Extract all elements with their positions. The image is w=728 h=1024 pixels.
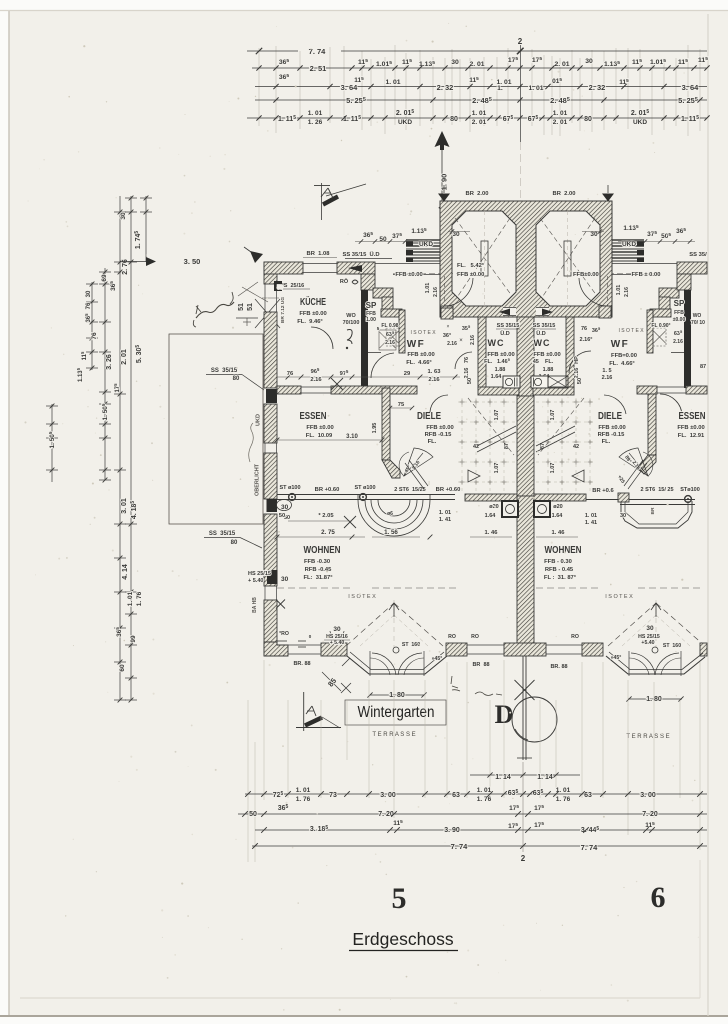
svg-text:2.16: 2.16: [428, 377, 440, 383]
svg-text:2.16: 2.16: [574, 368, 580, 379]
svg-text:30: 30: [590, 231, 598, 238]
svg-text:FFB ±0.00: FFB ±0.00: [306, 425, 333, 431]
porch 30 labels: [448, 229, 604, 238]
svg-text:1. 14: 1. 14: [495, 774, 511, 781]
wc fixtures left: [503, 376, 520, 388]
svg-text:1. 01: 1. 01: [556, 787, 571, 794]
section mark A top: [314, 183, 366, 220]
dim 3.10 essen: [275, 423, 385, 443]
svg-text:WO: WO: [693, 313, 702, 319]
wc east wall right unit: [566, 317, 574, 388]
FFB datum dashed left: [393, 272, 462, 278]
svg-text:I S O T E X: I S O T E X: [605, 594, 633, 600]
party wall axis below plan: [515, 656, 535, 760]
dim line 1.14 1.14: [470, 772, 580, 781]
top wall window BR 1.08: [303, 251, 337, 273]
steel column ST100 right: [586, 487, 700, 505]
svg-text:1.01: 1.01: [616, 285, 622, 296]
level arrow 3.50: [120, 257, 200, 266]
svg-text:2. 75: 2. 75: [321, 529, 335, 536]
wc door arc left: [455, 352, 472, 369]
svg-text:WOHNEN: WOHNEN: [545, 544, 582, 556]
stairwell grid right unit: [536, 398, 594, 492]
svg-text:FL. 1.465: FL. 1.465: [484, 357, 511, 365]
svg-text:I S O T E X: I S O T E X: [618, 328, 644, 334]
wc side dims left: [459, 324, 476, 384]
callout SS 35/15 80 upper: [206, 368, 264, 390]
svg-text:FL. 12.91: FL. 12.91: [678, 433, 705, 439]
svg-text:51: 51: [247, 303, 254, 311]
dimension line 2 (2.51 row): [252, 56, 710, 81]
svg-text:1. 46: 1. 46: [485, 530, 499, 536]
svg-text:1. 80: 1. 80: [389, 692, 405, 699]
entrance steps UKD left unit: [406, 240, 440, 262]
window cross mark left wall kueche: [242, 287, 280, 328]
SP closet walls right unit: [647, 309, 684, 353]
svg-text:30: 30: [585, 58, 593, 65]
room label WOHNEN right: [544, 544, 582, 581]
svg-text:2. 01: 2. 01: [554, 61, 569, 68]
svg-text:BR 88: BR 88: [472, 662, 489, 668]
svg-text:BR 2.00: BR 2.00: [553, 191, 576, 197]
wo 70/100 label left: [343, 313, 360, 349]
svg-text:BR. 88: BR. 88: [550, 664, 567, 670]
svg-text:30: 30: [452, 231, 460, 238]
room label WOHNEN left: [303, 544, 340, 581]
bay window right: [606, 651, 705, 676]
right edge small dims: [602, 364, 706, 381]
svg-text:1. 01: 1. 01: [496, 79, 511, 86]
svg-text:»45°: »45°: [432, 656, 443, 662]
svg-text:50: 50: [279, 513, 285, 519]
bottom wall pier right of party: [582, 643, 603, 656]
svg-text:SP: SP: [366, 301, 377, 310]
bottom extension lines: [248, 660, 700, 862]
svg-text:1. 26: 1. 26: [308, 119, 323, 126]
svg-text:80: 80: [450, 116, 458, 123]
svg-text:63: 63: [452, 792, 460, 799]
svg-text:SS 35/15 Ü.D: SS 35/15 Ü.D: [342, 251, 379, 258]
SP shelf crosses left: [386, 328, 399, 346]
svg-text:30: 30: [646, 625, 654, 632]
top wall east segment right unit: [659, 262, 707, 310]
51 51 rotated labels: [236, 282, 258, 326]
svg-text:WC: WC: [488, 338, 505, 348]
dimension line 3 (3.64 row): [255, 76, 707, 92]
svg-text:1. 63: 1. 63: [428, 369, 442, 375]
dimension line 7.74 top: [247, 47, 707, 56]
BR 2.00 labels: [466, 191, 576, 197]
dim 1.01 2.16 rotated right: [616, 285, 630, 297]
sp room label right: [651, 299, 705, 345]
wc side dims right: [574, 326, 601, 384]
svg-text:FFB ±0.00: FFB ±0.00: [426, 425, 453, 431]
entrance steps UKD right unit: [608, 240, 644, 262]
svg-text:UKD: UKD: [622, 241, 636, 248]
svg-text:FFB: FFB: [674, 310, 684, 316]
diag dim 85 left bay: [322, 658, 351, 693]
svg-text:UKD: UKD: [256, 414, 262, 426]
kueche door arc: [311, 327, 333, 349]
porch block with party wall: [440, 201, 612, 317]
HS label above left bay: [324, 626, 350, 646]
svg-text:2. 32: 2. 32: [437, 83, 454, 92]
svg-text:FL. 9.46°: FL. 9.46°: [297, 319, 323, 325]
svg-text:ø20: ø20: [553, 504, 562, 510]
wintergarten box and label: [345, 700, 446, 725]
label SS 35/15 UD top: [342, 251, 392, 259]
svg-text:RO: RO: [471, 634, 479, 640]
svg-text:1. 01: 1. 01: [296, 787, 311, 794]
steps dims right: [618, 224, 695, 244]
svg-text:1. 5: 1. 5: [602, 368, 611, 374]
top wall threshold lines at entrance: [375, 264, 677, 275]
steel columns ST100 left: [279, 485, 460, 500]
svg-text:SS 35/15: SS 35/15: [211, 368, 238, 374]
RO vent arrow left: [340, 265, 366, 285]
svg-text:FFB ±0.00: FFB ±0.00: [407, 352, 434, 358]
svg-text:1. 46: 1. 46: [552, 530, 566, 536]
steps dims left: [355, 227, 432, 244]
svg-text:1. 01: 1. 01: [585, 513, 597, 519]
room label WF left: [406, 339, 434, 366]
svg-text:80: 80: [233, 376, 240, 382]
svg-text:1. 01: 1. 01: [553, 110, 568, 117]
svg-text:99: 99: [130, 635, 137, 643]
svg-text:2.16: 2.16: [602, 375, 613, 381]
svg-text:76: 76: [287, 371, 294, 377]
svg-text:76: 76: [86, 302, 92, 309]
room label WC right: [533, 338, 561, 380]
svg-text:SS 35/15: SS 35/15: [533, 323, 556, 329]
svg-text:UKD: UKD: [398, 119, 412, 126]
svg-text:69: 69: [101, 274, 108, 282]
svg-text:50: 50: [249, 811, 257, 818]
detail letter D: [495, 700, 514, 729]
svg-text:HS 25/15: HS 25/15: [248, 571, 271, 577]
svg-text:2.16: 2.16: [385, 340, 395, 346]
stair fan right unit: [616, 448, 653, 489]
svg-text:1. 01: 1. 01: [439, 510, 451, 516]
room label DIELE left: [417, 410, 454, 445]
bottom dimension line B: [238, 804, 707, 818]
svg-text:STø100: STø100: [680, 487, 700, 493]
svg-text:BR 7.12 UG: BR 7.12 UG: [280, 297, 286, 323]
roof drain arrow top-left house corner: [244, 247, 263, 263]
bottom dimension line A: [245, 787, 707, 803]
detail circle: [512, 697, 557, 742]
bottom wall party pier: [504, 643, 546, 656]
svg-text:+ 5.40: + 5.40: [330, 640, 345, 646]
stair fan left unit: [399, 448, 433, 489]
crossed shower box right wc: [548, 376, 568, 388]
svg-text:42: 42: [473, 444, 479, 450]
pier below entrance right: [599, 306, 611, 318]
right landing pier: [618, 493, 629, 502]
porch threshold arrows: [499, 309, 553, 316]
svg-text:30: 30: [333, 626, 341, 633]
svg-text:80: 80: [231, 540, 238, 546]
svg-text:1.64: 1.64: [552, 513, 564, 519]
svg-text:WC: WC: [534, 338, 551, 348]
svg-text:FL. 5.42°: FL. 5.42°: [457, 263, 485, 269]
RO marks bottom wall: [279, 631, 579, 647]
svg-text:76: 76: [91, 332, 98, 340]
bay curtain fans left: [370, 642, 424, 675]
svg-text:1. 14: 1. 14: [537, 774, 553, 781]
kueche bottom wall dims: [277, 367, 460, 383]
svg-text:3. 64: 3. 64: [682, 83, 700, 92]
svg-text:Ü.D: Ü.D: [500, 330, 510, 337]
room label ESSEN right: [677, 410, 705, 439]
svg-text:ESSEN: ESSEN: [679, 410, 706, 422]
svg-text:°RO: °RO: [279, 631, 289, 637]
svg-text:3. 00: 3. 00: [640, 792, 656, 799]
svg-text:DIELE: DIELE: [598, 410, 622, 422]
wc fixtures right: [531, 376, 548, 388]
svg-text:4. 14: 4. 14: [122, 564, 129, 580]
svg-text:SS 35/15: SS 35/15: [497, 323, 520, 329]
dim 1.80 left bay: [364, 692, 430, 699]
svg-text:50: 50: [467, 378, 473, 384]
svg-text:RÖ: RÖ: [340, 278, 349, 285]
crossed box right of SP left unit: [379, 330, 396, 350]
svg-text:×: ×: [447, 324, 450, 330]
svg-text:2. 01: 2. 01: [469, 61, 484, 68]
svg-text:BR +0.6: BR +0.6: [592, 488, 614, 494]
porch dashed diagonals right: [540, 211, 597, 306]
svg-text:2. 01: 2. 01: [472, 119, 487, 126]
svg-text:1. 76: 1. 76: [136, 591, 143, 606]
left dimension rotated labels: [48, 212, 143, 672]
roof arrow left porch corner: [438, 185, 450, 202]
north arrow 1.90: [435, 131, 450, 208]
kueche west wall dark right unit: [684, 290, 691, 388]
room label KUECHE: [297, 295, 326, 325]
dim 1.01 2.16 rotated left: [425, 283, 439, 297]
door X mark kueche: [331, 378, 343, 390]
handwritten note right of left bay: [451, 676, 502, 696]
svg-text:SS 35/: SS 35/: [689, 252, 707, 258]
svg-text:7. 20: 7. 20: [642, 811, 658, 818]
svg-text:36°: 36°: [443, 333, 451, 339]
svg-text:FFB ±0.00: FFB ±0.00: [677, 425, 704, 431]
svg-text:FFB ±0.00: FFB ±0.00: [533, 352, 560, 358]
svg-text:SP: SP: [674, 299, 685, 308]
svg-text:1.64: 1.64: [491, 374, 503, 380]
bottom dimension line D: [252, 842, 707, 852]
handwritten scribble top left: [193, 292, 234, 327]
svg-text:1.07: 1.07: [494, 410, 500, 421]
wc door arc right: [569, 351, 591, 373]
svg-text:1. 01: 1. 01: [308, 110, 323, 117]
svg-text:1. 76: 1. 76: [296, 796, 311, 803]
svg-text:2 ST6 15/25: 2 ST6 15/25: [394, 487, 426, 493]
small hatched pier corridor left: [441, 308, 453, 319]
section line 2 top: [517, 37, 523, 142]
svg-text:2.16: 2.16: [470, 335, 476, 345]
paper edge lines: [8, 10, 10, 1017]
bay 45deg labels: [432, 655, 622, 662]
svg-text:42: 42: [573, 444, 579, 450]
svg-text:1.95: 1.95: [372, 423, 378, 434]
svg-text:RO: RO: [448, 634, 456, 640]
svg-text:1. 41: 1. 41: [439, 517, 451, 523]
porch FL labels: [457, 263, 599, 278]
svg-text:1. 76: 1. 76: [556, 796, 571, 803]
svg-text:30: 30: [120, 212, 127, 220]
svg-text:2. 32: 2. 32: [589, 83, 606, 92]
bay roof dashed tent left: [346, 600, 443, 648]
svg-text:ESSEN: ESSEN: [300, 410, 327, 422]
svg-text:BR 1.08: BR 1.08: [307, 251, 331, 257]
svg-text:Ü.D: Ü.D: [536, 330, 546, 337]
svg-text:1. 56: 1. 56: [384, 529, 398, 536]
svg-text:1. 01: 1. 01: [385, 79, 400, 86]
room label WF right: [609, 339, 637, 367]
SP closet walls left unit: [368, 309, 405, 353]
svg-text:1.07: 1.07: [550, 410, 556, 421]
svg-text:3. 26: 3. 26: [106, 354, 113, 370]
svg-text:FFB ±0.00: FFB ±0.00: [395, 272, 422, 278]
wohnen top dims left: [275, 500, 433, 540]
bottom wall left corner: [264, 642, 288, 656]
svg-text:3. 50: 3. 50: [184, 257, 201, 266]
svg-text:WF: WF: [611, 339, 630, 350]
svg-text:30: 30: [281, 576, 289, 583]
svg-text:6: 6: [651, 881, 666, 914]
svg-text:RFB -0.15: RFB -0.15: [598, 432, 626, 438]
svg-text:ø6: ø6: [387, 511, 393, 517]
svg-text:1. 01: 1. 01: [477, 787, 492, 794]
essen diele wall left unit: [382, 388, 400, 478]
right essen door arc: [660, 394, 682, 416]
svg-text:±0.00: ±0.00: [673, 317, 686, 323]
svg-text:7. 74: 7. 74: [451, 842, 469, 851]
svg-text:50: 50: [277, 285, 283, 291]
svg-text:UKD: UKD: [419, 241, 433, 248]
wf door arc left: [371, 353, 394, 378]
left wall window lower gaps: [265, 443, 287, 646]
right landing faceted parapet: [621, 501, 692, 528]
party wall main vertical: [517, 317, 534, 644]
svg-text:WOHNEN: WOHNEN: [304, 544, 341, 556]
svg-text:87: 87: [700, 364, 706, 370]
svg-text:2.16: 2.16: [464, 368, 470, 379]
svg-text:FFB±0.00: FFB±0.00: [573, 272, 599, 278]
svg-text:70/ 10: 70/ 10: [691, 320, 705, 326]
bottom dimension line C: [255, 819, 707, 834]
bay window left: [347, 651, 447, 676]
svg-text:RFB - 0.45: RFB - 0.45: [545, 567, 574, 573]
svg-text:FFB ±0.00: FFB ±0.00: [457, 272, 484, 278]
roof arrow right porch corner: [602, 185, 614, 202]
wf pier 36 deg left: [443, 324, 457, 347]
wc bottom right unit: [533, 387, 574, 395]
svg-text:50: 50: [379, 236, 387, 243]
svg-text:FFB -0.30: FFB -0.30: [304, 559, 330, 565]
svg-text:BR +0.60: BR +0.60: [436, 487, 461, 493]
BR 88 labels bottom: [293, 661, 567, 670]
svg-text:FFB ±0.00: FFB ±0.00: [487, 352, 514, 358]
right landing labels: [585, 507, 656, 526]
svg-text:ST ø100: ST ø100: [354, 485, 375, 491]
svg-text:+5.40: +5.40: [641, 640, 654, 646]
svg-text:FL.: FL.: [602, 439, 611, 445]
isotex dashed line left: [277, 588, 460, 600]
svg-text:FFB ±0.00: FFB ±0.00: [299, 311, 326, 317]
svg-text:KÜCHE: KÜCHE: [300, 295, 326, 308]
svg-text:70/100: 70/100: [343, 320, 360, 326]
bay curtain fans right: [629, 643, 681, 675]
svg-text:3. 90: 3. 90: [444, 827, 460, 834]
svg-text:3.10: 3.10: [346, 434, 358, 440]
svg-text:1. 01: 1. 01: [528, 85, 543, 92]
svg-text:2. 51: 2. 51: [310, 64, 327, 73]
svg-text:FL 0.98: FL 0.98: [381, 323, 398, 329]
svg-text:76: 76: [581, 326, 587, 332]
column block right: [534, 501, 563, 519]
svg-text:1.00: 1.00: [366, 317, 376, 323]
svg-text:2 ST6 15/ 25: 2 ST6 15/ 25: [640, 487, 673, 493]
svg-text:1.64: 1.64: [485, 513, 497, 519]
svg-text:3. 64: 3. 64: [341, 83, 359, 92]
svg-text:WF: WF: [407, 339, 426, 350]
svg-text:RFB -0.15: RFB -0.15: [425, 432, 453, 438]
svg-text:BR: BR: [650, 507, 656, 514]
svg-text:5: 5: [392, 882, 407, 915]
wc west wall left unit: [478, 317, 486, 388]
svg-text:ST 160: ST 160: [402, 642, 420, 648]
svg-text:2.16: 2.16: [310, 377, 322, 383]
svg-text:DIELE: DIELE: [417, 410, 441, 422]
dim 75 diele left: [388, 402, 414, 410]
essen diele wall right unit: [638, 388, 656, 474]
kueche east wall dark: [361, 290, 368, 388]
svg-text:FL. 4.66°: FL. 4.66°: [406, 360, 432, 366]
svg-text:51: 51: [238, 303, 245, 311]
svg-text:+ 5.40: + 5.40: [248, 578, 263, 584]
svg-text:BR. 88: BR. 88: [293, 661, 310, 667]
svg-text:1. 01: 1. 01: [127, 591, 134, 606]
left wall dark blocks: [266, 389, 277, 403]
top wall west segment: [264, 262, 375, 274]
porch dashed diagonals left: [455, 211, 512, 306]
stairwell grid left unit: [458, 398, 516, 492]
svg-text:T E R R A S S E: T E R R A S S E: [626, 734, 669, 740]
svg-text:30: 30: [620, 513, 626, 519]
left landing labels: [439, 510, 578, 537]
svg-text:BR +0.60: BR +0.60: [315, 487, 340, 493]
left dimension chain lines: [46, 196, 152, 703]
svg-text:FFB ±0.00: FFB ±0.00: [598, 425, 625, 431]
svg-text:FFB - 0.30: FFB - 0.30: [544, 559, 572, 565]
svg-text:FL.: FL.: [428, 439, 437, 445]
svg-text:80: 80: [584, 116, 592, 123]
svg-text:FL : 31. 87°: FL : 31. 87°: [544, 575, 577, 581]
svg-text:1.88: 1.88: [543, 367, 554, 373]
parapet wall right of party: [534, 494, 586, 501]
diele door arc right top: [604, 395, 626, 414]
svg-text:3. 00: 3. 00: [380, 792, 396, 799]
svg-text:»45°: »45°: [611, 655, 622, 661]
dimension line 5 (UKD row): [247, 109, 710, 126]
bottom wall pier left of party: [446, 643, 467, 656]
wc window labels left: [496, 323, 520, 337]
parapet wall left of party: [465, 494, 517, 501]
isotex dashed line right: [536, 588, 700, 600]
threshold lines bottom wall gaps: [288, 645, 582, 654]
